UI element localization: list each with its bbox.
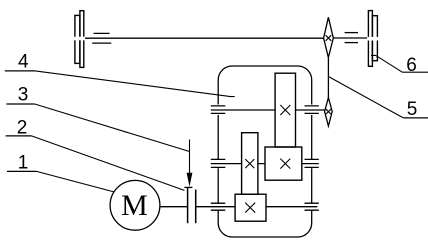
gearbox housing: [218, 66, 312, 237]
wire top shaft VI left segment: [84, 37, 324, 39]
right wheel flange: [368, 11, 372, 67]
label 1 text: [18, 153, 29, 174]
svg-text:6: 6: [406, 55, 417, 76]
bearing B1 left wall top shaft: [211, 106, 226, 114]
label 1 underline: [7, 170, 37, 172]
coupling left bar: [187, 188, 189, 223]
motor M1 circle: [110, 180, 160, 230]
label 4 underline: [5, 70, 36, 72]
leader line 2: [32, 136, 185, 191]
right wheel hub rim: [372, 16, 377, 61]
svg-text:3: 3: [18, 84, 29, 105]
bearing B5 right wall middle shaft: [305, 159, 319, 167]
leader 3 arrowhead: [187, 173, 193, 187]
motor M1 letter: [121, 189, 148, 222]
gear Z3 cross mark: [280, 159, 290, 169]
left wheel centerline gap: [74, 37, 85, 41]
left wheel flange: [80, 11, 84, 68]
bearing B8 upper line: [345, 32, 358, 34]
right wheel centerline gap: [367, 37, 379, 41]
wire shaft I (input shaft): [160, 206, 317, 208]
pulley P1 cross mark: [326, 35, 332, 41]
label 6 underline: [402, 71, 428, 73]
bearing B7 upper line: [94, 32, 110, 34]
coupling right bar: [195, 190, 197, 224]
label 5 underline: [403, 117, 428, 119]
label 2 underline: [6, 135, 32, 137]
label 3 underline: [6, 103, 34, 105]
leader line 1: [37, 171, 114, 192]
leader line 3 diagonal: [35, 104, 190, 152]
left wheel hub rim: [75, 15, 80, 63]
bearing B7 lower line: [92, 42, 111, 44]
label 2 text: [17, 117, 28, 138]
svg-text:4: 4: [18, 51, 29, 72]
gear Z3 (wide gear on middle shaft): [265, 147, 302, 180]
wire top shaft VI right segment: [333, 37, 368, 39]
leader line 6: [371, 55, 402, 72]
bearing B6 right wall bottom shaft: [305, 203, 319, 210]
wire shaft II (middle gear shaft): [211, 163, 319, 165]
gear Z2 (small gear on middle shaft): [242, 133, 258, 195]
leader line 4: [35, 71, 234, 97]
label 6 text: [406, 55, 417, 76]
coupling top tick: [184, 186, 192, 188]
pulley P2 (lower belt pulley): [325, 98, 333, 126]
pulley P2 cross mark: [326, 109, 331, 114]
svg-text:M: M: [121, 189, 148, 222]
belt 5: [327, 58, 329, 98]
label 4 text: [18, 51, 29, 72]
gear Z4 cross mark: [280, 105, 290, 115]
bearing B2 left wall middle shaft: [211, 159, 226, 167]
leader line 5: [328, 77, 403, 118]
svg-text:2: 2: [17, 117, 28, 138]
leader line 3 vertical: [189, 140, 191, 175]
bearing B8 lower line: [345, 42, 358, 44]
label 5 text: [407, 99, 418, 120]
gear Z2 cross mark: [245, 159, 254, 168]
housing wall gaps at bearings: [216, 105, 315, 210]
svg-text:1: 1: [18, 153, 29, 174]
svg-text:5: 5: [407, 99, 418, 120]
gear Z1 cross mark: [245, 203, 255, 213]
gear Z1 (gear on input shaft): [235, 194, 266, 221]
pulley P1 (upper belt pulley): [324, 17, 334, 57]
gear Z4 (large gear on top shaft): [275, 73, 295, 147]
wire shaft III (top gear shaft): [211, 109, 325, 111]
label 3 text: [18, 84, 29, 105]
bearing B4 right wall top shaft: [305, 106, 319, 114]
bearing B3 left wall bottom shaft: [211, 203, 226, 210]
